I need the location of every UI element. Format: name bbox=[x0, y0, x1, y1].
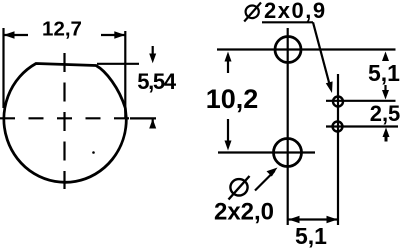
svg-text:2x2,0: 2x2,0 bbox=[214, 199, 274, 226]
arrow 5,1 lower (pointing down) bbox=[384, 85, 386, 92]
svg-text:2x0,9: 2x0,9 bbox=[264, 0, 327, 23]
dimension line 12,7 left segment bbox=[4, 34, 29, 36]
arrowhead 12,7 left bbox=[4, 31, 15, 38]
leader line from label 2x0,9 to hole C bbox=[313, 22, 331, 88]
dimension line 12,7 right segment bbox=[101, 34, 125, 36]
vertical centerline of D-hole (dashed) bbox=[63, 53, 65, 189]
arrow 5,1 upper right (pointing up) bbox=[384, 56, 386, 61]
extension line through hole D (for 2,5) bbox=[326, 125, 398, 127]
horizontal centerline through hole B (also extension for 10,2) bbox=[218, 151, 315, 153]
svg-text:5,1: 5,1 bbox=[368, 60, 400, 86]
extension line of flat (5,54 upper reference) bbox=[97, 63, 139, 65]
arrow 5,54 lower (pointing up) bbox=[152, 119, 154, 128]
arrow 5,54 upper (pointing down) bbox=[152, 46, 154, 56]
extension line through hole C (for 5,1 and 2,5) bbox=[326, 100, 396, 102]
small hole C (one of 2x ø0,9) bbox=[333, 97, 343, 107]
svg-text:10,2: 10,2 bbox=[206, 84, 259, 114]
arrowhead 5,1 bottom right (pointing right) bbox=[327, 216, 338, 223]
arrow 10,2 upper (pointing up) bbox=[227, 58, 229, 73]
extension line of centerline (5,54 lower reference) bbox=[130, 117, 156, 119]
hole B bottom circle (one of 2x ø2,0) bbox=[274, 139, 302, 167]
leader underline of label 2x0,9 bbox=[262, 21, 313, 23]
svg-text:12,7: 12,7 bbox=[42, 17, 82, 40]
extension line left of 12,7 dimension bbox=[2, 28, 4, 108]
arrow 2,5 lower (pointing up, below hole D line) bbox=[385, 133, 388, 142]
arrowhead 5,1 bottom left (pointing left) bbox=[289, 216, 300, 223]
dimension line 5,1 bottom bbox=[288, 218, 338, 220]
arrowhead 12,7 right bbox=[114, 31, 125, 38]
svg-text:5,1: 5,1 bbox=[295, 223, 327, 249]
extension line right of 12,7 dimension bbox=[124, 31, 126, 118]
diameter symbol of label 2x2,0 bbox=[229, 176, 250, 200]
D-hole outline (left figure, flatted circle) bbox=[4, 64, 126, 183]
horizontal centerline through hole A (also extension for 10,2 and 5,1) bbox=[217, 48, 396, 50]
vertical centerline through holes A and B bbox=[287, 28, 289, 225]
speckle dot bbox=[92, 151, 95, 154]
leader line from label 2x2,0 to hole B bbox=[255, 171, 275, 191]
svg-text:5,54: 5,54 bbox=[137, 69, 177, 94]
arrow 10,2 lower (pointing down) bbox=[227, 119, 229, 144]
small hole D (one of 2x ø0,9) bbox=[333, 122, 343, 132]
diameter symbol of label 2x0,9 bbox=[244, 3, 261, 22]
horizontal centerline of D-hole (dashed) bbox=[0, 117, 130, 119]
svg-text:2,5: 2,5 bbox=[370, 101, 400, 126]
vertical centerline through small holes C and D bbox=[337, 74, 339, 225]
hole A top circle (one of 2x ø2,0) bbox=[275, 37, 301, 63]
